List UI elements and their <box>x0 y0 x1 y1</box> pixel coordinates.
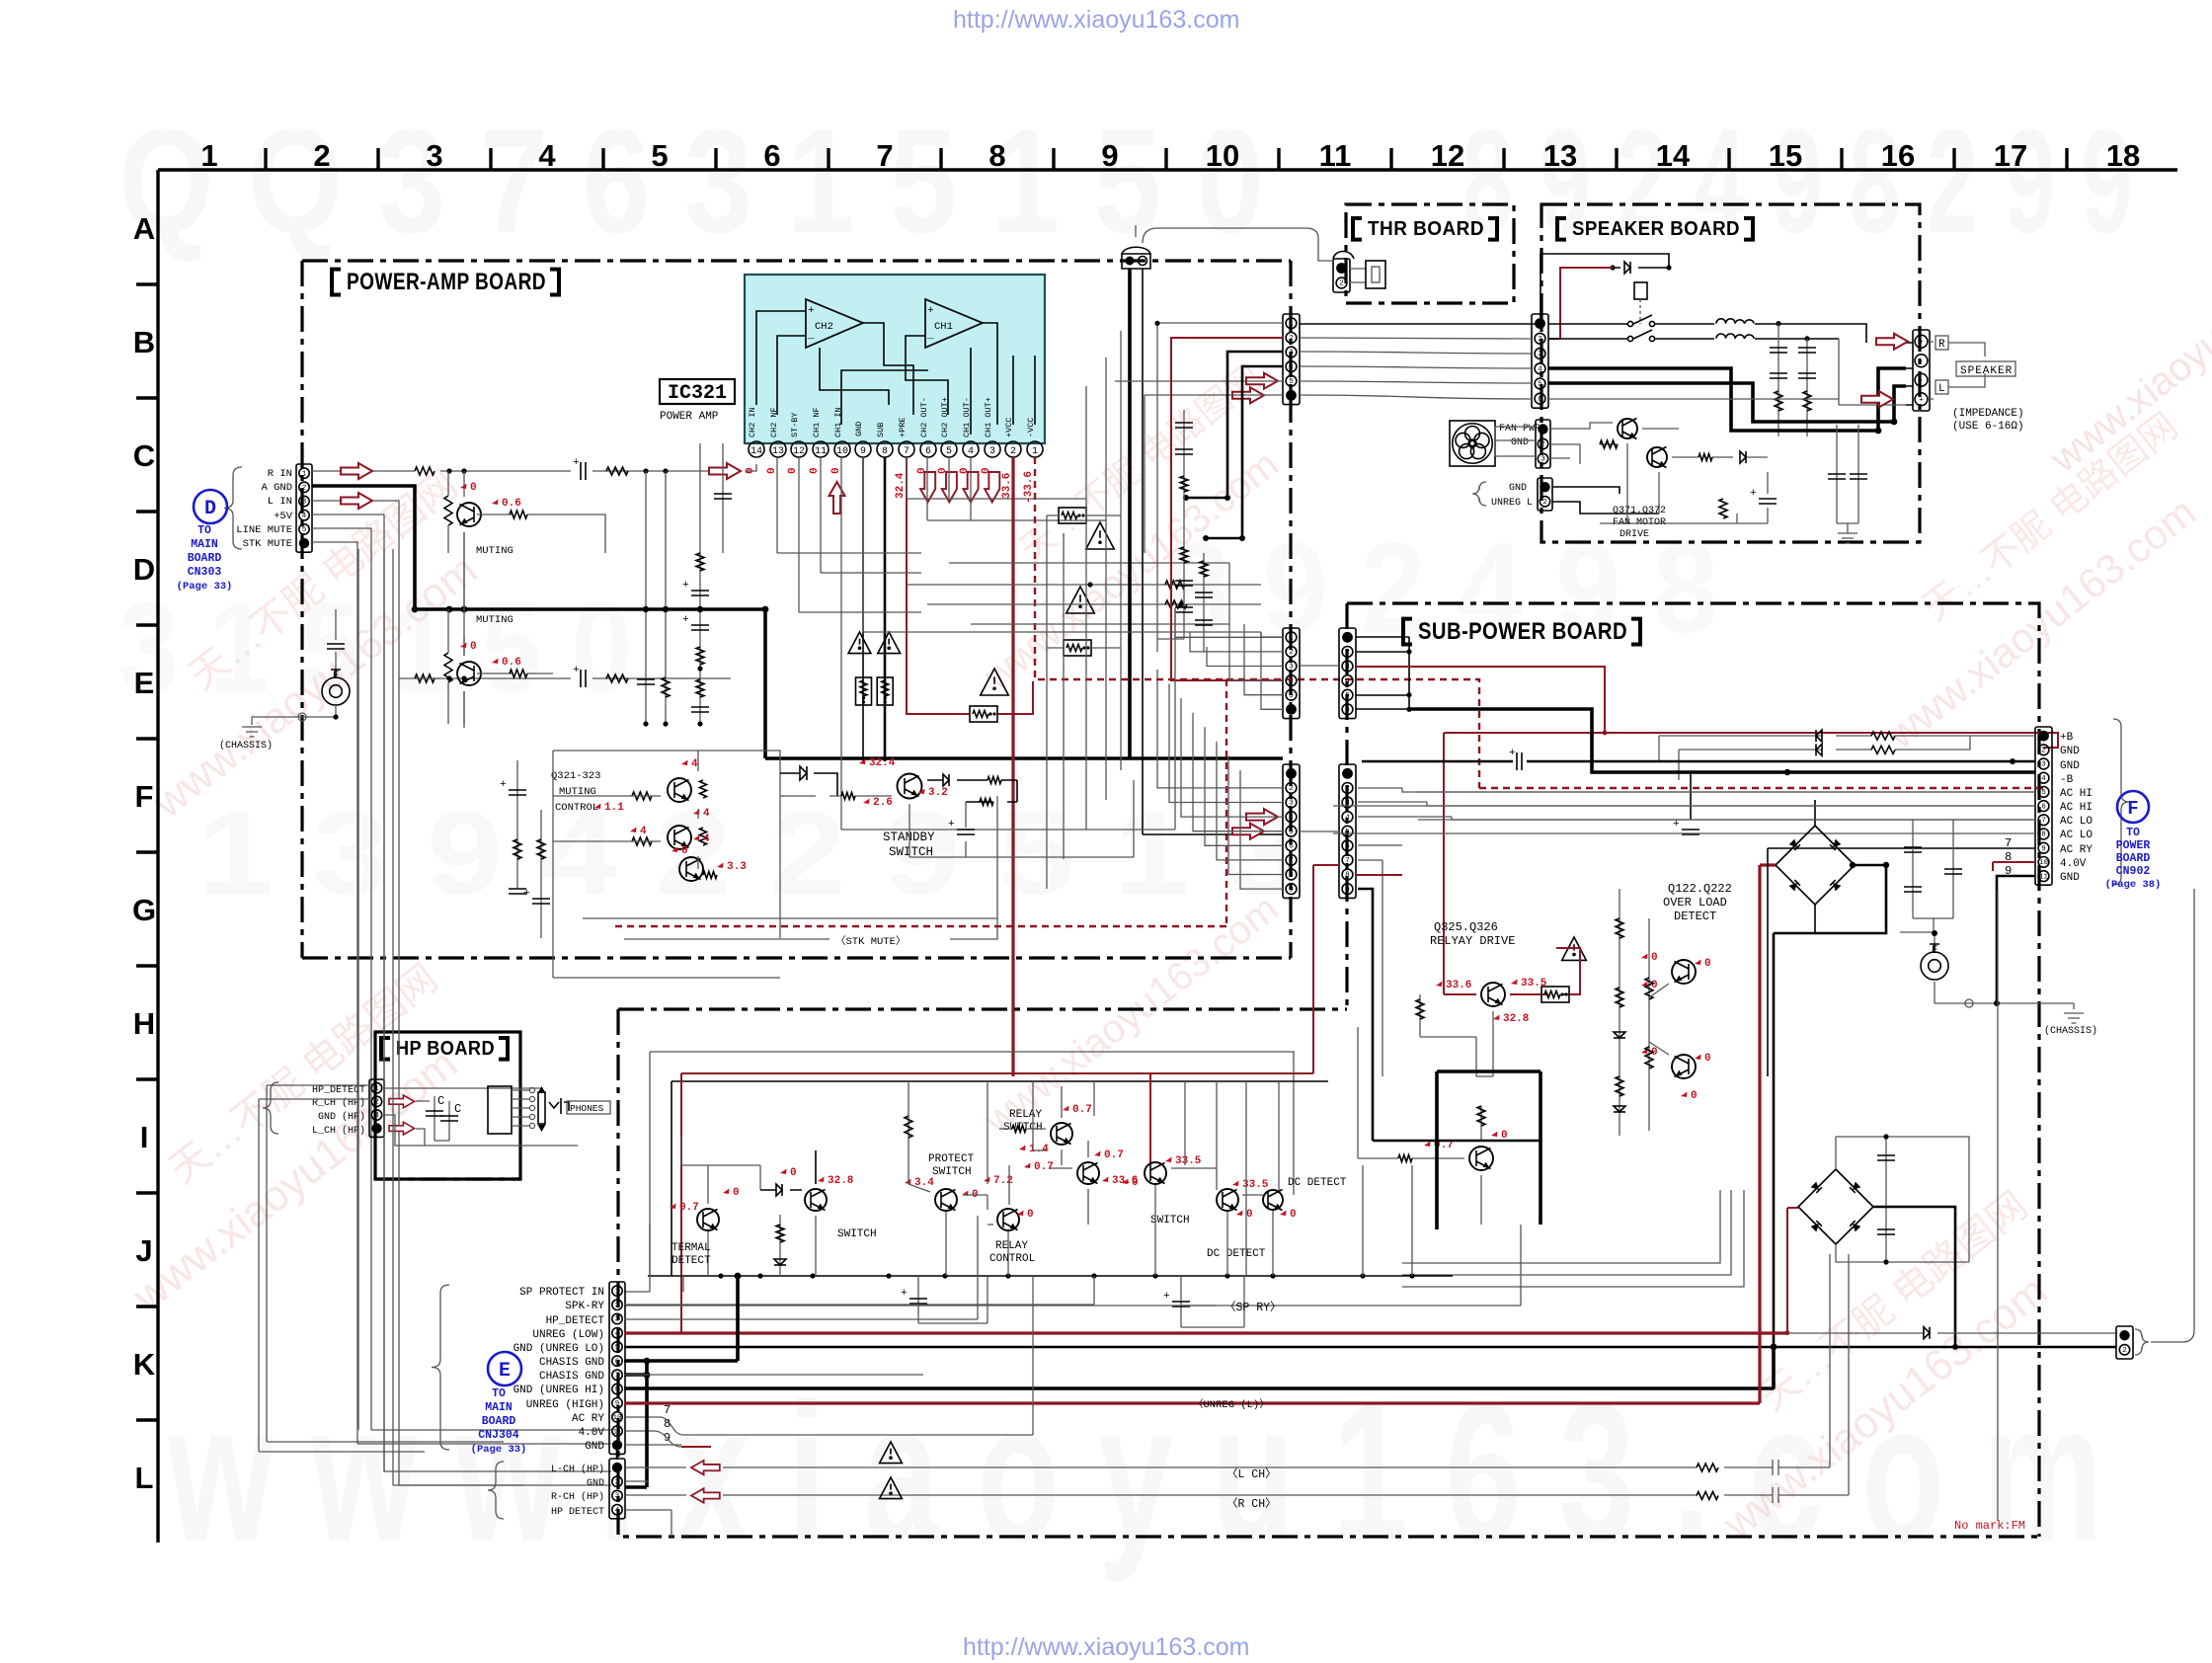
THR BOARD outline <box>1346 204 1514 303</box>
thermal fuse <box>1350 269 1366 282</box>
red wire bridge2 <box>1787 1208 1798 1332</box>
svg-text:3: 3 <box>2041 761 2046 769</box>
svg-text:UNREG (HIGH): UNREG (HIGH) <box>526 1399 604 1411</box>
SUB-POWER BOARD title <box>1403 619 1412 645</box>
svg-text:4: 4 <box>640 826 647 837</box>
svg-text:AC RY: AC RY <box>2060 844 2093 856</box>
svg-text:AC LO: AC LO <box>2060 830 2093 841</box>
relay box drop wires <box>987 1081 1279 1276</box>
switch transistor <box>805 1189 827 1211</box>
svg-text:E: E <box>333 671 340 682</box>
relay area rails <box>648 1275 1453 1277</box>
svg-text:DETECT: DETECT <box>1674 910 1716 923</box>
svg-text:7.2: 7.2 <box>993 1175 1013 1187</box>
svg-text:GND: GND <box>1511 437 1529 448</box>
svg-text:+: + <box>500 779 507 791</box>
svg-text:C: C <box>454 1102 461 1116</box>
wire L IN row <box>312 501 731 678</box>
svg-text:9: 9 <box>1345 886 1350 894</box>
svg-text:2: 2 <box>615 1303 620 1310</box>
svg-text:_: _ <box>807 330 815 342</box>
svg-text:1: 1 <box>374 1085 379 1093</box>
svg-text:TO: TO <box>492 1387 506 1400</box>
UNREG HIGH red <box>624 865 1776 1403</box>
svg-text:33.6: 33.6 <box>1446 980 1471 991</box>
svg-text:2: 2 <box>313 138 330 173</box>
svg-text:+: + <box>901 1288 908 1300</box>
svg-text:CH2 OUT+: CH2 OUT+ <box>940 397 950 437</box>
connector strip CN2 <box>1283 628 1300 719</box>
bridge1 wires <box>1814 800 1816 933</box>
svg-text:5: 5 <box>615 1344 620 1352</box>
more long bottom horizontals <box>624 1374 923 1376</box>
svg-text:RELAY: RELAY <box>1009 1109 1042 1121</box>
svg-text:3: 3 <box>1540 456 1545 464</box>
svg-text:12: 12 <box>793 446 805 457</box>
svg-text:1: 1 <box>200 138 217 173</box>
svg-text:-: - <box>1919 377 1924 385</box>
svg-text:AC HI: AC HI <box>2060 802 2093 814</box>
relay drive lower transistor <box>1469 1147 1493 1170</box>
svg-text:2: 2 <box>1339 280 1344 288</box>
svg-text:1: 1 <box>1289 321 1294 329</box>
svg-text:+: + <box>1509 748 1516 759</box>
SPEAKER BOARD title <box>1557 218 1566 240</box>
phones jack <box>488 1086 512 1134</box>
svg-text:4: 4 <box>1345 814 1350 822</box>
svg-text:2: 2 <box>1345 785 1350 793</box>
speaker relay wires top <box>1540 254 1669 324</box>
svg-text:IC321: IC321 <box>668 382 727 405</box>
svg-text:4: 4 <box>2041 775 2046 783</box>
svg-text:0: 0 <box>470 482 477 494</box>
HP board connector <box>369 1079 384 1137</box>
svg-text:9: 9 <box>615 1400 620 1408</box>
svg-text:0: 0 <box>1704 958 1711 970</box>
bridge wires between strips <box>1300 665 1339 667</box>
svg-text:http://www.xiaoyu163.com: http://www.xiaoyu163.com <box>963 1633 1249 1661</box>
thick vertical bus in sub-power <box>1437 1071 1540 1229</box>
sp protect routing <box>624 1225 650 1292</box>
svg-text:0: 0 <box>470 641 477 653</box>
standby switch <box>898 774 922 799</box>
svg-text:6: 6 <box>925 446 931 457</box>
svg-text:MUTING: MUTING <box>476 614 513 626</box>
svg-text:L: L <box>135 1461 154 1495</box>
sub-power top-left strip fanout <box>1356 637 1409 709</box>
HP BOARD title <box>381 1038 390 1060</box>
svg-text:+: + <box>682 614 689 626</box>
svg-text:3: 3 <box>615 1316 620 1324</box>
svg-text:3: 3 <box>989 446 995 457</box>
muting control wiring box <box>553 751 780 978</box>
connector strip CN3 <box>1283 764 1300 898</box>
svg-text:SUB-POWER BOARD: SUB-POWER BOARD <box>1418 618 1627 645</box>
svg-text:-VCC: -VCC <box>1026 418 1036 437</box>
muting transistor Q301 <box>457 503 481 526</box>
svg-text:5: 5 <box>946 446 952 457</box>
svg-text:DRIVE: DRIVE <box>1619 529 1649 540</box>
connector F strip <box>2035 727 2052 885</box>
svg-text:4: 4 <box>302 513 307 520</box>
pink diagonal watermarks <box>123 225 2212 1549</box>
svg-text:R IN: R IN <box>268 468 292 480</box>
POWER-AMP BOARD title <box>332 270 341 295</box>
relay contacts <box>1548 315 1714 324</box>
svg-text:〈UNREG (L)〉: 〈UNREG (L)〉 <box>1193 1398 1270 1411</box>
svg-text:0: 0 <box>1704 1053 1711 1065</box>
connector D to main board CN303 <box>296 464 312 552</box>
svg-text:J: J <box>135 1233 152 1268</box>
svg-text:HP DETECT: HP DETECT <box>551 1507 604 1518</box>
svg-text:4: 4 <box>968 446 974 457</box>
CHASIS GND wires <box>624 1276 738 1361</box>
svg-text:MUTING: MUTING <box>476 545 513 557</box>
svg-text:4: 4 <box>703 808 710 820</box>
svg-text:6: 6 <box>1345 843 1350 851</box>
bridge rectifier 1 <box>1776 826 1855 905</box>
op-amp IC321 block <box>745 275 1045 443</box>
svg-text:(Page 38): (Page 38) <box>2105 879 2162 891</box>
svg-text:2.6: 2.6 <box>873 797 893 809</box>
svg-text:2: 2 <box>1538 336 1542 344</box>
staircase from D connector <box>357 549 359 1430</box>
svg-text:7: 7 <box>664 1403 671 1417</box>
svg-text:CN902: CN902 <box>2116 865 2151 878</box>
HP BOARD outline <box>375 1032 520 1179</box>
speaker R/L boxes <box>1935 336 1948 350</box>
svg-text:L_CH (HP): L_CH (HP) <box>312 1125 365 1137</box>
svg-text:PROTECT: PROTECT <box>928 1153 975 1165</box>
svg-text:2: 2 <box>2041 748 2046 755</box>
svg-text:Q Q 3 7 6 3 1 5 1 5 0: Q Q 3 7 6 3 1 5 1 5 0 <box>118 98 1264 264</box>
svg-text:11: 11 <box>1319 138 1352 173</box>
svg-text:3: 3 <box>426 138 442 173</box>
IC output wires <box>907 457 971 520</box>
svg-text:-B: -B <box>2060 774 2074 786</box>
svg-text:17: 17 <box>1994 138 2027 173</box>
grid ruler top <box>158 138 2177 173</box>
svg-text:0: 0 <box>1246 1209 1253 1221</box>
long vertical inside right edge <box>1997 891 1999 1521</box>
GND thick wires to F <box>1409 709 2035 772</box>
svg-text:8: 8 <box>2041 831 2046 839</box>
svg-text:3: 3 <box>302 499 307 507</box>
svg-text:2: 2 <box>374 1099 379 1107</box>
svg-text:HP_DETECT: HP_DETECT <box>312 1085 365 1096</box>
termal detect transistor <box>697 1209 719 1230</box>
svg-text:2: 2 <box>1289 335 1294 343</box>
svg-text:SPEAKER BOARD: SPEAKER BOARD <box>1572 218 1740 240</box>
svg-text:+: + <box>927 305 934 317</box>
svg-text:Q371.Q372: Q371.Q372 <box>1613 506 1666 516</box>
svg-text:BOARD: BOARD <box>188 552 222 565</box>
chassis ground left <box>242 727 262 737</box>
HP lower connector <box>609 1459 625 1519</box>
svg-text:RELAY: RELAY <box>995 1240 1028 1252</box>
svg-text:CH2: CH2 <box>815 321 833 333</box>
svg-text:Q325.Q326: Q325.Q326 <box>1434 920 1498 934</box>
svg-text:0: 0 <box>790 1167 797 1179</box>
svg-text:-: - <box>1919 357 1924 365</box>
HP board caps <box>384 1088 578 1146</box>
svg-text:9: 9 <box>860 446 866 457</box>
svg-text:3: 3 <box>1538 351 1542 358</box>
svg-text:0: 0 <box>787 467 799 474</box>
svg-text:5: 5 <box>1538 381 1542 389</box>
svg-text:5: 5 <box>1289 692 1294 700</box>
inductors <box>1716 319 1735 324</box>
svg-text:33.5: 33.5 <box>1175 1155 1202 1167</box>
svg-text:HP BOARD: HP BOARD <box>396 1038 495 1060</box>
svg-text:SP PROTECT IN: SP PROTECT IN <box>519 1287 604 1299</box>
svg-text:F: F <box>2127 798 2138 820</box>
svg-text:5: 5 <box>2041 789 2046 797</box>
svg-text:E: E <box>1932 945 1938 957</box>
svg-text:7: 7 <box>876 138 893 173</box>
horizontal bundle from t3 strip <box>1358 788 1452 860</box>
svg-text:8: 8 <box>882 446 888 457</box>
svg-text:http://www.xiaoyu163.com: http://www.xiaoyu163.com <box>953 6 1239 34</box>
SUB-POWER BOARD outline <box>618 603 2039 1537</box>
svg-text:0: 0 <box>1290 1209 1297 1221</box>
+PRE red wire <box>907 457 1033 714</box>
svg-text:3: 3 <box>374 1112 379 1120</box>
svg-text:1.4: 1.4 <box>1029 1144 1049 1155</box>
svg-text:10: 10 <box>612 1414 622 1422</box>
svg-text:F: F <box>135 779 154 814</box>
thick feed from top connector <box>1128 269 1132 758</box>
cap/res column x=1219 <box>1203 553 1205 652</box>
svg-text:12: 12 <box>1431 138 1464 173</box>
svg-text:8: 8 <box>1289 872 1294 880</box>
svg-text:GND: GND <box>1509 483 1527 494</box>
misc wires right of IC <box>1047 515 1121 648</box>
svg-text:1 3 9 4 2 2 9 5 1 3: 1 3 9 4 2 2 9 5 1 3 <box>197 787 1303 919</box>
+VCC red wire <box>1011 457 1014 1076</box>
svg-text:L: L <box>1938 383 1945 395</box>
svg-text:6: 6 <box>763 138 780 173</box>
svg-text:SWITCH: SWITCH <box>932 1166 972 1178</box>
svg-text:6: 6 <box>2041 803 2046 811</box>
svg-text:GND: GND <box>854 422 864 436</box>
IC321 label <box>660 379 735 404</box>
svg-text:7: 7 <box>1345 857 1350 865</box>
grid ruler left <box>132 170 158 1543</box>
red wire CN1 pin2 to CN2 <box>1171 338 1283 680</box>
svg-text:4.0V: 4.0V <box>2060 858 2087 870</box>
svg-text:32.4: 32.4 <box>895 472 907 499</box>
svg-text:0: 0 <box>1651 952 1658 964</box>
svg-text:GND: GND <box>2060 746 2080 757</box>
-VCC red dashed wire <box>612 457 2043 926</box>
svg-text:GND: GND <box>585 1441 604 1453</box>
svg-text:CH2 OUT-: CH2 OUT- <box>919 397 929 437</box>
svg-text:14: 14 <box>1656 138 1691 173</box>
svg-text:4: 4 <box>615 1330 620 1338</box>
bridge rectifier 2 <box>1798 1169 1873 1244</box>
red arrows below IC321 <box>829 482 845 514</box>
svg-text:0: 0 <box>1027 1209 1034 1221</box>
svg-text:〈L CH〉: 〈L CH〉 <box>1226 1467 1277 1481</box>
svg-text:CH1 IN: CH1 IN <box>833 407 843 437</box>
svg-text:(CHASSIS): (CHASSIS) <box>219 740 273 752</box>
svg-text:+: + <box>573 457 580 469</box>
connector E to main board CNJ304 <box>609 1282 625 1454</box>
+B red feed <box>1356 667 2058 748</box>
svg-text:10: 10 <box>836 446 848 457</box>
svg-text:32.4: 32.4 <box>869 757 896 769</box>
svg-text:BOARD: BOARD <box>482 1415 516 1428</box>
svg-text:+B: +B <box>2060 732 2074 744</box>
AC wires <box>1333 792 2035 833</box>
svg-text:(Page 33): (Page 33) <box>177 581 233 593</box>
svg-text:7: 7 <box>1289 857 1294 865</box>
svg-text:0: 0 <box>1691 1090 1698 1102</box>
POWER-AMP BOARD outline <box>302 261 1291 958</box>
svg-text:SPK-RY: SPK-RY <box>565 1301 604 1312</box>
IC321 pins 14..1 <box>748 397 1043 457</box>
svg-text:+: + <box>682 580 689 592</box>
svg-text:4: 4 <box>1538 365 1542 373</box>
svg-text:11: 11 <box>815 446 827 457</box>
svg-text:GND: GND <box>2060 760 2080 772</box>
svg-text:L IN: L IN <box>268 496 292 508</box>
svg-text:+: + <box>1919 339 1924 347</box>
svg-text:13: 13 <box>1543 138 1577 173</box>
SPEAKER BOARD outline <box>1541 204 1920 542</box>
wires into CN1 <box>1115 323 1283 652</box>
svg-text:R-CH (HP): R-CH (HP) <box>551 1491 604 1503</box>
svg-text:HP_DETECT: HP_DETECT <box>546 1315 605 1327</box>
svg-text:FAN MOTOR: FAN MOTOR <box>1613 517 1666 528</box>
SUB-POWER left strips <box>1339 628 1356 719</box>
svg-text:(CHASSIS): (CHASSIS) <box>2044 1025 2097 1037</box>
svg-text:2: 2 <box>615 1479 620 1487</box>
svg-text:OVER LOAD: OVER LOAD <box>1663 896 1727 910</box>
svg-text:9: 9 <box>2041 845 2046 853</box>
speaker output connector <box>1913 330 1930 411</box>
svg-text:6: 6 <box>1538 396 1542 404</box>
UNREG LOW red bus <box>624 1331 1787 1334</box>
svg-text:GND: GND <box>2060 872 2080 884</box>
svg-text:10: 10 <box>2039 859 2049 867</box>
svg-text:MAIN: MAIN <box>485 1401 513 1414</box>
svg-text:4: 4 <box>1289 363 1294 371</box>
svg-text:FAN PWR: FAN PWR <box>1499 424 1540 435</box>
svg-text:10: 10 <box>1206 138 1239 173</box>
AC RY line long <box>1767 848 1769 1076</box>
E loop fuse right <box>1934 933 1935 948</box>
svg-text:32.8: 32.8 <box>828 1175 854 1187</box>
wires CN1 strip to speaker board strip <box>1300 323 1540 325</box>
speaker filter columns <box>1778 324 1807 436</box>
svg-text:16: 16 <box>1881 138 1915 173</box>
speaker board left connector <box>1532 314 1548 408</box>
svg-text:Q321-323: Q321-323 <box>551 770 600 782</box>
svg-text:(USE 6-16Ω): (USE 6-16Ω) <box>1952 421 2024 433</box>
wires line mute / stk mute drop lines <box>312 528 611 1444</box>
svg-text:CONTROL: CONTROL <box>989 1253 1035 1265</box>
svg-text:7: 7 <box>615 1373 620 1381</box>
svg-text:AC HI: AC HI <box>2060 788 2093 800</box>
svg-text:5: 5 <box>302 526 307 534</box>
svg-text:〈STK MUTE〉: 〈STK MUTE〉 <box>835 935 906 948</box>
svg-text:5: 5 <box>1289 829 1294 836</box>
svg-text:CH1 OUT+: CH1 OUT+ <box>984 397 993 437</box>
svg-text:D: D <box>133 552 155 587</box>
svg-text:DC DETECT: DC DETECT <box>1207 1248 1266 1260</box>
svg-text:2: 2 <box>1345 649 1350 657</box>
stk mute route <box>583 796 997 918</box>
thick out wires CN1 <box>1186 352 1283 538</box>
svg-text:C: C <box>437 1094 444 1108</box>
vertical bundle below IC <box>1047 331 1121 889</box>
SPEAKER label <box>1956 361 2015 376</box>
svg-text:TO: TO <box>2126 827 2140 839</box>
svg-text:9: 9 <box>1101 138 1118 173</box>
svg-text:AC RY: AC RY <box>572 1413 604 1425</box>
svg-text:POWER: POWER <box>2116 839 2151 852</box>
svg-text:13: 13 <box>772 446 784 457</box>
svg-text:DETECT: DETECT <box>671 1255 711 1267</box>
svg-text:TERMAL: TERMAL <box>671 1242 711 1254</box>
svg-text:3: 3 <box>1345 664 1350 672</box>
svg-text:RELYAY DRIVE: RELYAY DRIVE <box>1430 934 1515 948</box>
svg-text:6: 6 <box>1289 843 1294 851</box>
svg-text:K: K <box>133 1347 156 1382</box>
svg-text:AC LO: AC LO <box>2060 816 2093 828</box>
fan drive transistors <box>1618 419 1637 438</box>
svg-text:11: 11 <box>612 1428 622 1436</box>
svg-text:3.2: 3.2 <box>928 787 948 799</box>
svg-text:1: 1 <box>1289 635 1294 643</box>
svg-text:A GND: A GND <box>261 482 292 494</box>
svg-text:_: _ <box>926 330 934 342</box>
overload wiring column <box>1619 889 1649 1136</box>
svg-text:CHASIS GND: CHASIS GND <box>539 1357 604 1369</box>
svg-text:3: 3 <box>1289 800 1294 808</box>
svg-text:(Page 33): (Page 33) <box>471 1444 527 1456</box>
svg-text:〈R CH〉: 〈R CH〉 <box>1226 1497 1277 1511</box>
red drop to relay drive <box>1444 733 1476 994</box>
svg-text:4: 4 <box>691 758 698 770</box>
svg-text:4: 4 <box>538 138 556 173</box>
wire A GND thick bus <box>312 486 1283 758</box>
svg-text:0: 0 <box>733 1187 740 1199</box>
node E circle <box>488 1352 521 1386</box>
svg-text:2: 2 <box>2122 1347 2127 1355</box>
red pin measurements <box>745 467 1035 504</box>
svg-text:R: R <box>1938 339 1945 351</box>
node D circle <box>194 490 227 523</box>
thick wire bridge2 to connector <box>1873 1207 1955 1346</box>
speaker board caps bottom right <box>1837 425 1858 523</box>
svg-text:CH1 NF: CH1 NF <box>812 407 822 437</box>
svg-text:0.7: 0.7 <box>1104 1149 1124 1161</box>
svg-text:3.3: 3.3 <box>727 861 747 873</box>
svg-text:5: 5 <box>1289 378 1294 386</box>
svg-text:C: C <box>133 438 155 473</box>
node F circle <box>2117 791 2149 823</box>
svg-text:+: + <box>948 819 955 831</box>
svg-text:UNREG (LOW): UNREG (LOW) <box>532 1329 604 1341</box>
fan motor <box>1450 421 1495 466</box>
svg-text:2: 2 <box>1010 446 1016 457</box>
big filter caps <box>1690 772 1692 820</box>
svg-text:5: 5 <box>1345 829 1350 836</box>
svg-text:0.6: 0.6 <box>502 657 521 669</box>
